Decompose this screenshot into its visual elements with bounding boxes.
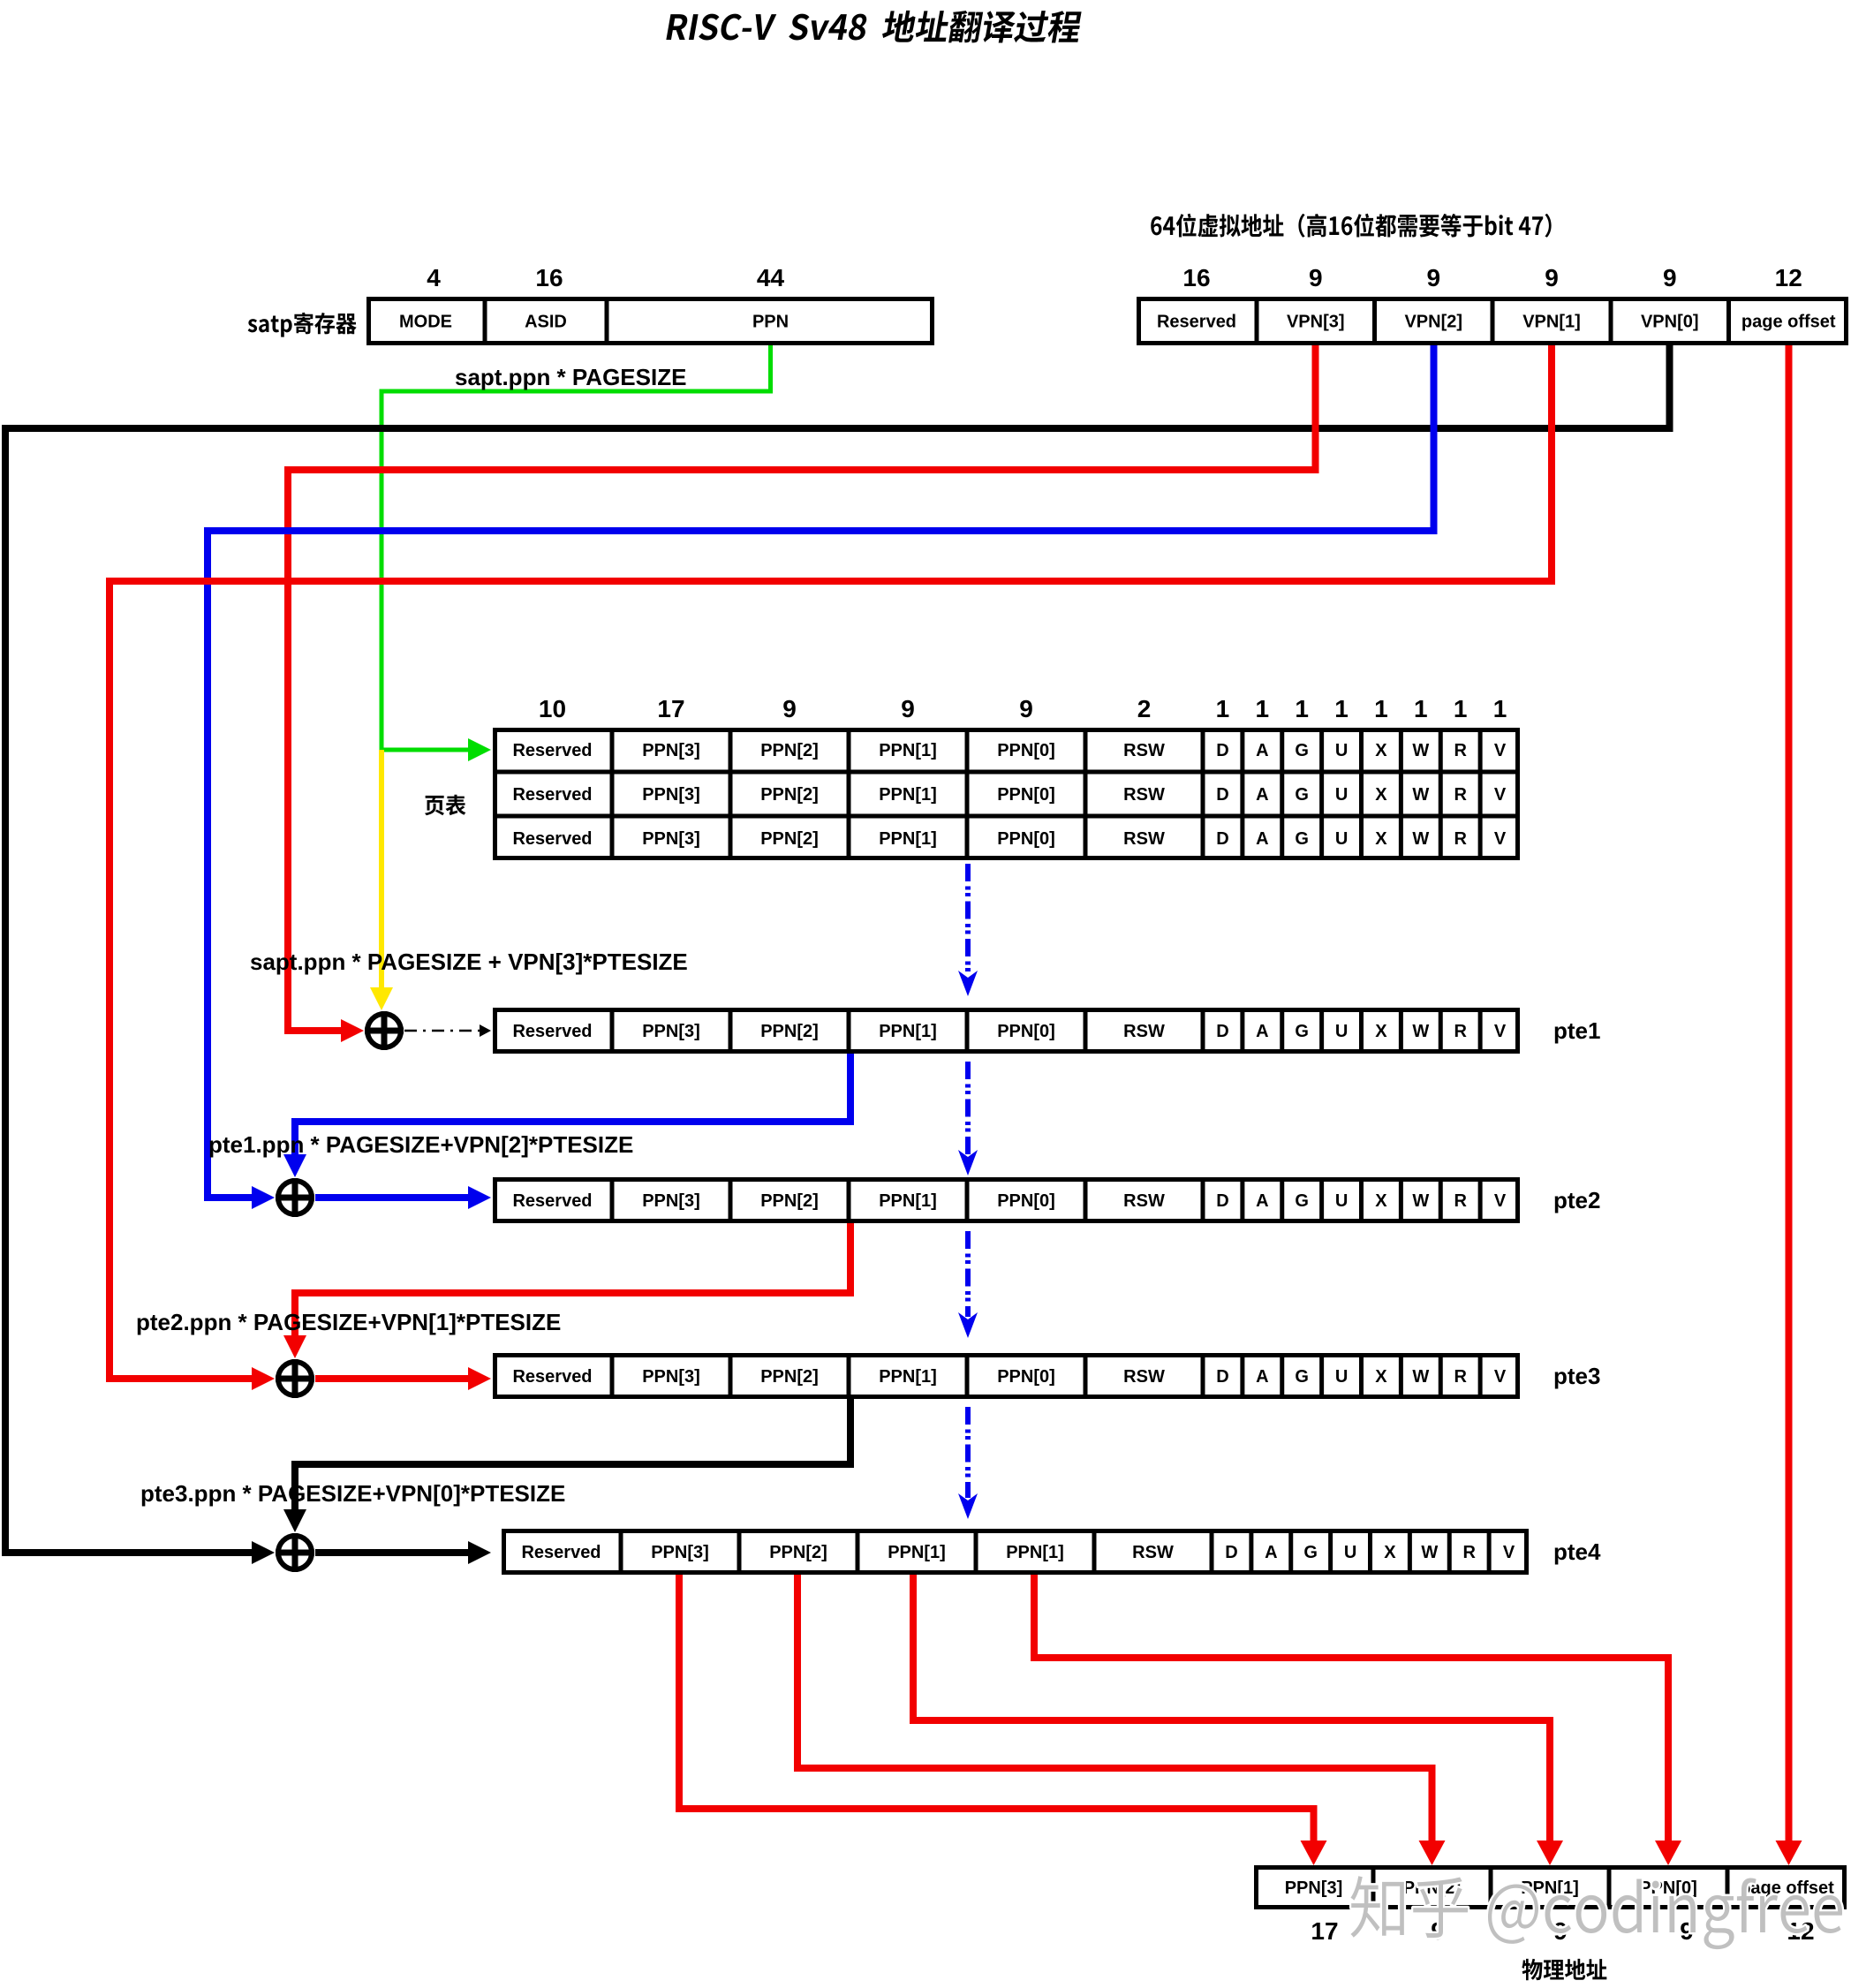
wire: thin dash-dot adder 1 output into pte1 (404, 1030, 480, 1032)
svg-text:A: A (1256, 741, 1268, 760)
svg-text:9: 9 (1663, 264, 1677, 291)
svg-text:PPN[3]: PPN[3] (651, 1543, 709, 1562)
svg-text:PPN[1]: PPN[1] (879, 1022, 937, 1041)
svg-text:17: 17 (657, 695, 684, 722)
svg-text:PPN[2]: PPN[2] (760, 1191, 819, 1211)
svg-text:V: V (1494, 785, 1507, 805)
svg-text:PPN[2]: PPN[2] (760, 1367, 819, 1387)
svg-text:1: 1 (1493, 695, 1507, 722)
svg-text:Reserved: Reserved (512, 1367, 592, 1387)
svg-text:1: 1 (1374, 695, 1388, 722)
svg-text:RSW: RSW (1123, 1191, 1165, 1211)
svg-text:R: R (1454, 829, 1467, 849)
svg-text:Reserved: Reserved (512, 1022, 592, 1041)
svg-text:V: V (1494, 1191, 1507, 1211)
svg-text:17: 17 (1311, 1917, 1338, 1945)
svg-text:G: G (1303, 1543, 1318, 1562)
svg-text:pte4: pte4 (1553, 1538, 1601, 1565)
svg-text:PPN[0]: PPN[0] (997, 829, 1055, 849)
svg-text:G: G (1295, 785, 1309, 805)
svg-text:PPN: PPN (752, 313, 789, 332)
svg-text:RSW: RSW (1123, 1022, 1165, 1041)
svg-text:page offset: page offset (1741, 313, 1836, 332)
svg-text:1: 1 (1414, 695, 1428, 722)
label: 64-bit virtual address (1151, 214, 1551, 238)
svg-text:G: G (1295, 1191, 1309, 1211)
svg-text:Reserved: Reserved (1157, 313, 1236, 332)
svg-text:MODE: MODE (399, 313, 452, 332)
svg-text:VPN[0]: VPN[0] (1641, 313, 1699, 332)
svg-text:PPN[3]: PPN[3] (642, 1022, 700, 1041)
svg-text:W: W (1412, 1367, 1429, 1387)
wire: blue adder 2 output into pte2 (315, 1194, 470, 1201)
svg-text:V: V (1494, 741, 1507, 760)
svg-text:4: 4 (427, 264, 441, 291)
wire: red from page offset straight down to physical address (1786, 345, 1793, 1842)
svg-text:Reserved: Reserved (512, 1191, 592, 1211)
svg-text:1: 1 (1216, 695, 1230, 722)
svg-text:PPN[2]: PPN[2] (769, 1543, 827, 1562)
wire: red pte2.ppn down-left-down into adder 3 (295, 1223, 850, 1337)
svg-text:Reserved: Reserved (512, 829, 592, 849)
svg-text:W: W (1412, 785, 1429, 805)
svg-text:PPN[1]: PPN[1] (879, 829, 937, 849)
svg-text:sapt.ppn * PAGESIZE + VPN[3]*P: sapt.ppn * PAGESIZE + VPN[3]*PTESIZE (250, 949, 688, 975)
svg-text:D: D (1216, 741, 1228, 760)
wire: blue from VPN[2] to adder 2 (208, 345, 1434, 1198)
svg-text:9: 9 (901, 695, 915, 722)
svg-text:V: V (1494, 1367, 1507, 1387)
svg-text:pte2.ppn * PAGESIZE+VPN[1]*PTE: pte2.ppn * PAGESIZE+VPN[1]*PTESIZE (136, 1309, 561, 1335)
wire: red from VPN[1] to adder 3 (110, 345, 1552, 1379)
page table (3 rows) (495, 730, 1518, 858)
svg-text:PPN[3]: PPN[3] (642, 785, 700, 805)
svg-text:G: G (1295, 829, 1309, 849)
svg-text:U: U (1335, 829, 1348, 849)
svg-text:U: U (1335, 1191, 1348, 1211)
svg-text:D: D (1216, 1022, 1228, 1041)
svg-text:pte1.ppn * PAGESIZE+VPN[2]*PTE: pte1.ppn * PAGESIZE+VPN[2]*PTESIZE (208, 1131, 633, 1158)
svg-text:RSW: RSW (1123, 829, 1165, 849)
svg-text:pte3: pte3 (1553, 1363, 1600, 1389)
svg-text:PPN[3]: PPN[3] (642, 829, 700, 849)
svg-text:X: X (1375, 1367, 1387, 1387)
wire: blue dash-dot walk indicator 1 (965, 864, 971, 975)
svg-text:PPN[2]: PPN[2] (760, 829, 819, 849)
svg-text:1: 1 (1256, 695, 1270, 722)
svg-text:RSW: RSW (1123, 785, 1165, 805)
svg-text:A: A (1256, 1191, 1268, 1211)
svg-text:12: 12 (1775, 264, 1802, 291)
svg-text:9: 9 (1545, 264, 1559, 291)
svg-text:W: W (1412, 1022, 1429, 1041)
svg-text:R: R (1454, 1191, 1467, 1211)
svg-text:VPN[3]: VPN[3] (1287, 313, 1345, 332)
svg-text:RSW: RSW (1123, 741, 1165, 760)
svg-text:R: R (1454, 741, 1467, 760)
label: physical address (物理地址) (1522, 1959, 1606, 1980)
pte4 entry box (504, 1531, 1527, 1573)
wire: yellow branch down into adder 1 (379, 750, 384, 991)
svg-text:PPN[1]: PPN[1] (888, 1543, 946, 1562)
wire: red pte4 PPN to physical address cell 4 (679, 1575, 1314, 1842)
svg-text:2: 2 (1137, 695, 1152, 722)
svg-text:R: R (1454, 1022, 1467, 1041)
svg-text:PPN[3]: PPN[3] (1285, 1878, 1343, 1898)
svg-text:ASID: ASID (525, 313, 567, 332)
svg-text:Reserved: Reserved (512, 785, 592, 805)
wire: red pte4 PPN to physical address cell 2 (913, 1575, 1550, 1842)
label: satp register (satp寄存器) (248, 313, 357, 337)
svg-text:A: A (1265, 1543, 1277, 1562)
svg-text:pte2: pte2 (1553, 1187, 1600, 1213)
svg-text:16: 16 (535, 264, 563, 291)
adder circle-plus 4 (278, 1536, 312, 1569)
svg-text:PPN[0]: PPN[0] (997, 785, 1055, 805)
svg-text:pte3.ppn * PAGESIZE+VPN[0]*PTE: pte3.ppn * PAGESIZE+VPN[0]*PTESIZE (140, 1480, 565, 1507)
svg-text:PPN[1]: PPN[1] (879, 1191, 937, 1211)
wire: red from VPN[3] to adder 1 (288, 345, 1316, 1031)
svg-text:G: G (1295, 1367, 1309, 1387)
svg-text:VPN[2]: VPN[2] (1404, 313, 1462, 332)
svg-text:X: X (1375, 741, 1387, 760)
wire: blue dash-dot walk indicator 2 (965, 1062, 971, 1154)
svg-text:A: A (1256, 829, 1268, 849)
svg-text:sapt.ppn * PAGESIZE: sapt.ppn * PAGESIZE (455, 364, 686, 390)
svg-text:Reserved: Reserved (512, 741, 592, 760)
svg-text:V: V (1494, 829, 1507, 849)
wire: blue dash-dot walk indicator 3 (965, 1231, 971, 1317)
pte1 entry box (495, 1010, 1518, 1052)
wire: blue dash-dot walk indicator 4 (965, 1407, 971, 1498)
svg-text:PPN[3]: PPN[3] (642, 1367, 700, 1387)
svg-text:R: R (1454, 785, 1467, 805)
svg-text:10: 10 (539, 695, 566, 722)
svg-text:PPN[1]: PPN[1] (879, 785, 937, 805)
svg-text:R: R (1454, 1367, 1467, 1387)
virtual address register box (1139, 299, 1847, 344)
svg-text:X: X (1375, 1022, 1387, 1041)
svg-text:16: 16 (1182, 264, 1210, 291)
svg-text:X: X (1375, 829, 1387, 849)
svg-text:U: U (1335, 1367, 1348, 1387)
svg-text:RSW: RSW (1123, 1367, 1165, 1387)
wire: red pte4 PPN to physical address cell 1 (1034, 1575, 1668, 1842)
svg-text:R: R (1462, 1543, 1476, 1562)
svg-text:A: A (1256, 1022, 1268, 1041)
svg-text:9: 9 (782, 695, 797, 722)
svg-text:Reserved: Reserved (521, 1543, 601, 1562)
svg-text:PPN[0]: PPN[0] (997, 741, 1055, 760)
wire: red pte4 PPN to physical address cell 3 (797, 1575, 1432, 1842)
adder circle-plus 2 (278, 1181, 312, 1214)
wire: green sapt.ppn * PAGESIZE from satp PPN down-left-down to page table (382, 345, 771, 750)
svg-text:VPN[1]: VPN[1] (1522, 313, 1581, 332)
svg-text:W: W (1421, 1543, 1438, 1562)
svg-text:V: V (1503, 1543, 1515, 1562)
svg-text:PPN[3]: PPN[3] (642, 741, 700, 760)
physical address box (1257, 1868, 1845, 1908)
title: RISC-V Sv48 address translation (666, 11, 1084, 43)
svg-text:RSW: RSW (1132, 1543, 1174, 1562)
label: page table (页表) (425, 795, 465, 816)
svg-text:PPN[1]: PPN[1] (879, 1367, 937, 1387)
adder circle-plus 3 (278, 1362, 312, 1395)
svg-text:D: D (1216, 829, 1228, 849)
wire: red adder 3 output into pte3 (315, 1375, 470, 1382)
svg-text:D: D (1216, 785, 1228, 805)
svg-text:PPN[2]: PPN[2] (760, 785, 819, 805)
svg-text:1: 1 (1454, 695, 1468, 722)
pte3 entry box (495, 1356, 1518, 1397)
wire: black from VPN[0] via far left edge to adder 4 (5, 345, 1670, 1553)
svg-text:9: 9 (1309, 264, 1323, 291)
svg-text:PPN[2]: PPN[2] (760, 1022, 819, 1041)
svg-text:G: G (1295, 741, 1309, 760)
svg-text:U: U (1335, 1022, 1348, 1041)
svg-text:W: W (1412, 741, 1429, 760)
svg-text:9: 9 (1019, 695, 1033, 722)
svg-text:V: V (1494, 1022, 1507, 1041)
svg-text:PPN[0]: PPN[0] (997, 1191, 1055, 1211)
adder circle-plus 1 (367, 1014, 401, 1047)
svg-text:D: D (1225, 1543, 1237, 1562)
svg-text:PPN[0]: PPN[0] (997, 1022, 1055, 1041)
satp register box (MODE/ASID/PPN) (369, 299, 933, 344)
svg-text:PPN[1]: PPN[1] (879, 741, 937, 760)
wire: black pte3.ppn down-left-down into adder 4 (295, 1399, 850, 1511)
wire: black adder 4 output into pte4 (315, 1549, 470, 1556)
svg-text:A: A (1256, 1367, 1268, 1387)
svg-text:U: U (1335, 785, 1348, 805)
wire: blue pte1.ppn down-left-down into adder 2 (295, 1054, 850, 1156)
svg-text:1: 1 (1295, 695, 1309, 722)
svg-text:X: X (1384, 1543, 1396, 1562)
svg-text:9: 9 (1426, 264, 1440, 291)
svg-text:D: D (1216, 1191, 1228, 1211)
svg-text:A: A (1256, 785, 1268, 805)
pte2 entry box (495, 1180, 1518, 1221)
svg-text:U: U (1344, 1543, 1356, 1562)
svg-text:PPN[3]: PPN[3] (642, 1191, 700, 1211)
svg-text:PPN[2]: PPN[2] (760, 741, 819, 760)
svg-text:G: G (1295, 1022, 1309, 1041)
svg-text:PPN[1]: PPN[1] (1006, 1543, 1064, 1562)
svg-text:44: 44 (757, 264, 785, 291)
svg-text:1: 1 (1334, 695, 1349, 722)
svg-text:D: D (1216, 1367, 1228, 1387)
svg-text:PPN[0]: PPN[0] (997, 1367, 1055, 1387)
watermark 知乎 @codingfree (1350, 1876, 1842, 1949)
svg-text:U: U (1335, 741, 1348, 760)
svg-text:X: X (1375, 1191, 1387, 1211)
svg-text:pte1: pte1 (1553, 1017, 1600, 1044)
svg-text:W: W (1412, 1191, 1429, 1211)
svg-text:W: W (1412, 829, 1429, 849)
svg-text:X: X (1375, 785, 1387, 805)
